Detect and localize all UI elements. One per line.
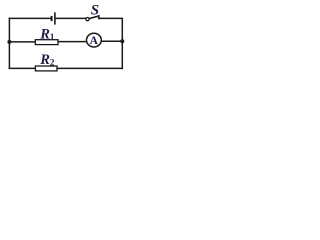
battery negative plate (short) [51,16,53,21]
wire: left vertical [8,18,10,69]
wire: left junction to R1 [9,41,35,43]
ammeter U1 circle [87,33,102,47]
switch lever [89,16,100,19]
switch right contact dot [98,17,100,19]
resistor R2 (box) [35,66,57,71]
switch S left contact circle [86,18,89,21]
battery positive plate (long) [54,12,56,24]
wire: switch to top-right corner [100,17,124,19]
svg-text:S: S [91,3,99,19]
wire: right vertical [121,18,123,69]
wire: bottom left to R2 [9,67,36,69]
wire: R1 to ammeter [58,41,87,43]
wire: battery to switch [56,17,87,19]
wire: ammeter to right junction [101,40,122,42]
wire: top left horizontal (battery left lead) [9,17,52,19]
wire: R2 to bottom-right corner [57,67,123,69]
svg-text:A: A [90,35,99,47]
resistor R1 (box) [35,40,58,45]
node: right junction dot [120,39,124,43]
node: left junction dot [7,40,11,44]
